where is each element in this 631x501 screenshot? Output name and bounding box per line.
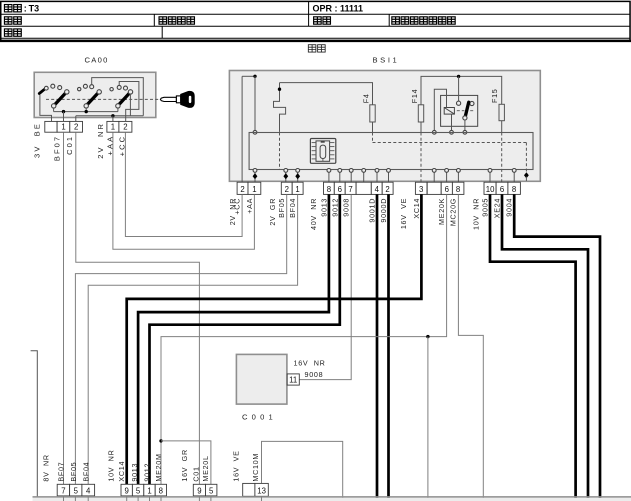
- wire 9005 thick: [490, 194, 576, 501]
- svg-text:2: 2: [240, 185, 244, 194]
- svg-text:7: 7: [348, 185, 352, 194]
- switch contact S3: [110, 88, 113, 91]
- svg-text:9: 9: [197, 486, 201, 495]
- svg-text:9000D: 9000D: [379, 198, 388, 223]
- svg-text:16V VE: 16V VE: [399, 198, 408, 229]
- svg-text:5: 5: [209, 486, 214, 495]
- svg-text:3V BE: 3V BE: [33, 122, 42, 158]
- svg-text:10V NR: 10V NR: [107, 450, 116, 482]
- wire 9008 : BSI pin 7 to C001 pin 11: [299, 194, 351, 379]
- junction: [253, 75, 256, 78]
- svg-text:MC20G: MC20G: [449, 198, 458, 226]
- BSI pins 10 6 8 (10V NR): [484, 182, 496, 194]
- svg-text:16V VE: 16V VE: [231, 450, 240, 481]
- C001 pin 11: [287, 374, 299, 385]
- svg-text:1: 1: [111, 123, 115, 132]
- wire 9001D thick: [376, 194, 379, 501]
- CA00 connector pins 1 2 (left): [45, 121, 57, 132]
- relay coil: [444, 108, 454, 115]
- svg-text:2V NR: 2V NR: [96, 122, 105, 159]
- svg-text:C01: C01: [191, 466, 200, 481]
- svg-text:F4: F4: [361, 93, 370, 103]
- svg-text:ME20K: ME20K: [437, 198, 446, 225]
- svg-text:F14: F14: [410, 89, 419, 104]
- svg-text:2: 2: [74, 123, 78, 132]
- wire ME20K / ME20M / ME20L: [161, 194, 447, 484]
- svg-text:+AA: +AA: [245, 198, 254, 214]
- svg-text:C001: C001: [242, 413, 277, 422]
- relay lever: [465, 102, 469, 117]
- wire BF04 : BSI to bottom pin 4: [88, 194, 297, 484]
- bottom edge boxes of next sheet: [33, 496, 631, 498]
- dashed F14 to pin 3: [420, 133, 422, 183]
- svg-text:9004: 9004: [505, 198, 514, 217]
- ignition switch CA00 body: [34, 72, 156, 117]
- svg-text:10V NR: 10V NR: [472, 198, 481, 230]
- svg-text:9012: 9012: [142, 463, 151, 482]
- svg-text:5: 5: [74, 486, 79, 495]
- BSI1 body: [229, 71, 540, 182]
- wire to S3 lever tip: [129, 94, 131, 116]
- svg-text:XC14: XC14: [412, 198, 421, 219]
- terminal circle: [253, 130, 257, 134]
- wire 9012 thick : BSI pin 6 to bottom pin 1: [150, 194, 340, 484]
- svg-text:2V GR: 2V GR: [268, 198, 277, 226]
- contact return wire: [464, 120, 466, 131]
- junction: [457, 75, 460, 78]
- connector C001 body: [236, 354, 287, 404]
- svg-text:9008: 9008: [342, 198, 351, 217]
- svg-text:2: 2: [385, 185, 389, 194]
- bottom connector 16V VE pin 13: [243, 483, 255, 496]
- wire C01 : CA00 pin2 to connector 16V GR pin 9: [76, 132, 200, 484]
- svg-text:6: 6: [500, 185, 504, 194]
- BSI pins _ 6 8 (ME20): [427, 182, 441, 194]
- svg-text:BF05: BF05: [69, 462, 78, 482]
- svg-text:16V GR: 16V GR: [180, 449, 189, 481]
- wire to fuse F4: [280, 83, 373, 105]
- svg-text:1: 1: [147, 486, 151, 495]
- svg-text::: :: [24, 3, 27, 13]
- svg-text:ME20M: ME20M: [154, 453, 163, 481]
- BSI pins 2 1 (2V NR): [237, 182, 248, 194]
- coil return wire: [451, 114, 453, 130]
- wire fuse F14 top: [421, 76, 502, 104]
- BSI pins 8 6 7 _ 4 2 (40V NR): [324, 182, 335, 194]
- svg-text:10: 10: [486, 185, 495, 194]
- svg-text:9001D: 9001D: [368, 198, 377, 223]
- svg-text:1: 1: [295, 185, 299, 194]
- wire MC10M off-page: [262, 441, 343, 501]
- svg-text:8: 8: [512, 185, 516, 194]
- wire +AA : CA00 to BSI pin 1: [113, 132, 255, 249]
- svg-text:5: 5: [136, 486, 141, 495]
- header text 发动机转速信息: [392, 17, 400, 24]
- fuse F4: [372, 105, 374, 132]
- chip symbol: [310, 139, 335, 164]
- wire XC14 thick : BSI pin 3 to bottom pin 9: [127, 194, 422, 484]
- section label 原理: [308, 45, 316, 52]
- svg-text:7: 7: [61, 486, 65, 495]
- BSI pins 2 1 (2V GR): [281, 182, 292, 194]
- wire 9004 thick: [514, 194, 600, 501]
- bottom connector 10V NR pins 9 5 1 8: [121, 484, 132, 496]
- svg-text:8: 8: [327, 185, 331, 194]
- svg-text:CA00: CA00: [85, 55, 109, 64]
- svg-text:11: 11: [289, 376, 297, 385]
- svg-text:ME20L: ME20L: [201, 455, 210, 481]
- svg-text:1: 1: [252, 185, 256, 194]
- switch contact S2: [78, 87, 81, 90]
- dashed F15 to pin 6: [501, 133, 503, 183]
- switch contact S1: [51, 84, 55, 88]
- relay contact fixed: [457, 101, 461, 105]
- wire S3 contact to +CC: [119, 82, 139, 122]
- svg-text:13: 13: [257, 487, 266, 496]
- svg-text:BF05: BF05: [277, 198, 286, 218]
- svg-text:BF07: BF07: [57, 462, 66, 482]
- svg-text:6: 6: [445, 185, 449, 194]
- svg-text:8V NR: 8V NR: [42, 454, 51, 481]
- header text 车辆:T3: [4, 5, 12, 12]
- junction ME20K branch: [426, 335, 429, 338]
- svg-text:3: 3: [419, 185, 423, 194]
- junction ME20M/ME20L: [159, 439, 162, 442]
- coil feed wire: [434, 89, 446, 130]
- svg-text:T3: T3: [29, 3, 40, 13]
- diamond BF05: [283, 173, 288, 179]
- relay contact fixed 2: [470, 101, 474, 105]
- fuse F14: [420, 105, 422, 132]
- bottom connector 16V GR pins 9 5: [193, 484, 205, 496]
- stubs to bottom edge: [63, 496, 65, 501]
- dashed internal net: [279, 133, 281, 170]
- bottom connector 8V NR pins 7 5 4: [57, 484, 69, 496]
- key lock cylinder: [39, 90, 44, 94]
- BSI pin 3 (16V VE): [415, 182, 427, 194]
- svg-text:40V NR: 40V NR: [309, 198, 318, 230]
- svg-text:BSI1: BSI1: [373, 55, 400, 64]
- contact feed wire: [458, 76, 460, 101]
- header text 功能: [314, 17, 322, 24]
- svg-text:9012: 9012: [330, 198, 339, 217]
- wire 9000D thick: [387, 194, 390, 501]
- svg-text:MC10M: MC10M: [251, 453, 260, 482]
- stub wire to left edge: [31, 351, 38, 497]
- svg-text:9008: 9008: [305, 370, 324, 379]
- svg-text:2: 2: [285, 185, 289, 194]
- svg-text:2: 2: [123, 123, 127, 132]
- svg-text:C01: C01: [65, 135, 74, 155]
- fuse F15: [501, 104, 503, 132]
- shunt symbol: [274, 83, 286, 132]
- net terminator diamond: [524, 172, 529, 178]
- svg-text:XC14: XC14: [117, 461, 126, 482]
- wire pin2 +CC vertical: [241, 76, 243, 182]
- svg-text:4: 4: [86, 486, 91, 495]
- svg-text:1: 1: [61, 123, 65, 132]
- relay K1: [441, 95, 478, 126]
- CA00 connector pins 1 2 (right): [107, 121, 119, 132]
- svg-text:XE24: XE24: [493, 198, 502, 218]
- svg-text:BF07: BF07: [53, 135, 62, 161]
- junction: [278, 88, 281, 91]
- wire pin1 +AA vertical: [254, 76, 256, 130]
- dashed actuation line: [46, 98, 163, 100]
- svg-text:+CC: +CC: [233, 198, 242, 215]
- svg-text:9013: 9013: [130, 463, 139, 482]
- svg-text:9013: 9013: [319, 198, 328, 217]
- terminal circles and stubs to pins: [254, 171, 256, 182]
- svg-text:4: 4: [375, 185, 380, 194]
- wire BF07 : CA00 pin1 to bottom pin 7: [63, 132, 65, 484]
- svg-text:16V NR: 16V NR: [294, 358, 326, 367]
- svg-text:F15: F15: [490, 89, 499, 104]
- svg-text:BF04: BF04: [288, 198, 297, 218]
- wire XE24 thick: [502, 194, 588, 501]
- internal wire W2: [76, 115, 144, 117]
- svg-text:9005: 9005: [481, 198, 490, 217]
- header table: [1, 1, 630, 40]
- diamond +AA: [253, 173, 258, 179]
- key symbol: [160, 97, 176, 101]
- svg-text:9: 9: [125, 486, 129, 495]
- svg-text:OPR : 11111: OPR : 11111: [313, 4, 364, 14]
- thick separator line under table: [0, 40, 631, 42]
- header text 动力总成: [159, 17, 167, 24]
- diamond BF04: [295, 173, 300, 179]
- wire 9013 thick : BSI pin 8 to bottom pin 5: [138, 194, 329, 484]
- relay link dashes: [457, 110, 460, 112]
- wire S2 contact to top rail: [92, 78, 144, 116]
- wire +CC : CA00 to BSI pin 2: [125, 132, 242, 236]
- BSI internal module box: [249, 133, 533, 170]
- svg-text:6: 6: [338, 185, 342, 194]
- wire top link: [242, 75, 255, 77]
- wire MC20G: [458, 194, 483, 501]
- header text 范围: [4, 17, 12, 24]
- svg-text:8: 8: [159, 486, 163, 495]
- header text 部件: [4, 29, 12, 36]
- svg-text:8: 8: [456, 185, 460, 194]
- wire BF05 : BSI to bottom pin 5: [75, 194, 286, 484]
- internal wire W1 common of switch bottoms: [54, 111, 118, 113]
- svg-text:BF04: BF04: [82, 462, 91, 482]
